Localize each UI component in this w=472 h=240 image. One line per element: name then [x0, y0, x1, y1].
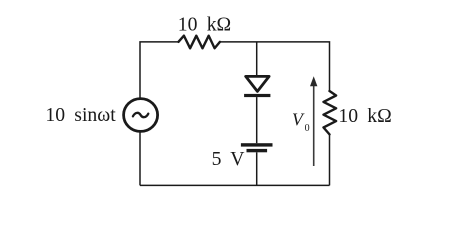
battery V1 short plate	[247, 149, 268, 152]
diode D1 cathode bar	[244, 94, 270, 97]
svg-text:0: 0	[305, 123, 310, 134]
svg-text:10 kΩ: 10 kΩ	[178, 14, 231, 36]
node Vo arrow line (output voltage reference)	[313, 85, 315, 166]
wire source bottom to bottom-left corner	[139, 132, 141, 185]
voltage source VS circle	[124, 99, 158, 132]
svg-text:10 kΩ: 10 kΩ	[338, 105, 391, 127]
diode D1 (pointing down) hollow triangle	[246, 76, 269, 91]
svg-text:10 sinωt: 10 sinωt	[45, 104, 116, 126]
wire diode cathode to battery top plate	[256, 97, 258, 143]
resistor R2 zigzag (right, vertical)	[324, 91, 337, 134]
node Vo arrowhead	[310, 76, 317, 86]
wire right branch bottom to bottom rail	[329, 134, 331, 185]
wire top-middle junction to diode anode	[256, 42, 258, 77]
voltage source VS sine tilde	[133, 113, 148, 117]
svg-text:V: V	[292, 110, 305, 130]
wire top-left: source top to resistor R1 left lead	[140, 42, 179, 98]
svg-text:5 V: 5 V	[212, 148, 245, 170]
resistor R1 zigzag (top, horizontal)	[179, 36, 220, 49]
battery V1 long plate	[241, 143, 273, 146]
wire battery bottom plate to bottom rail	[256, 152, 258, 185]
wire top-right: R1 right lead to right branch top	[220, 42, 330, 91]
wire bottom rail	[140, 184, 330, 186]
